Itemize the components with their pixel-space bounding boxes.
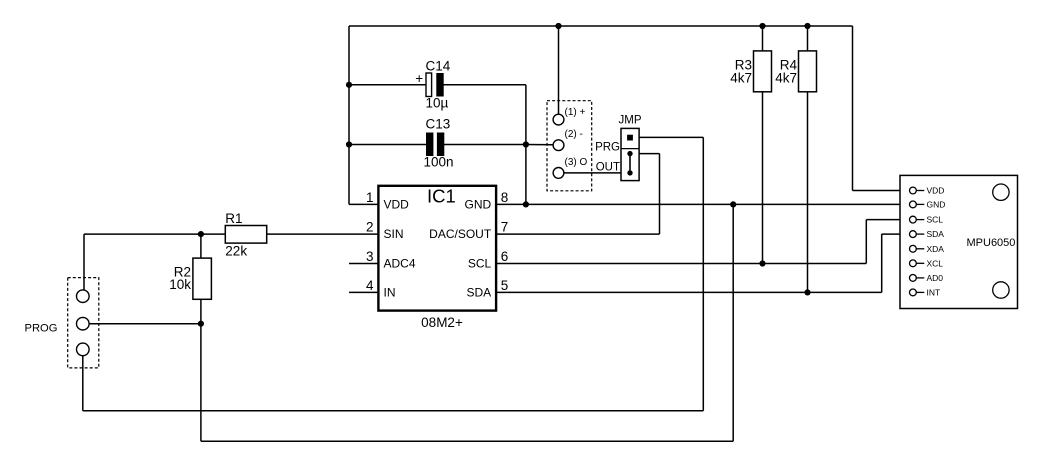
svg-text:8: 8	[501, 190, 509, 205]
capacitor C13 right plate	[437, 133, 444, 157]
svg-text:XCL: XCL	[927, 258, 944, 268]
svg-text:6: 6	[501, 249, 509, 264]
wire SDA vertical	[881, 234, 883, 292]
module pin circle SDA	[910, 231, 917, 238]
capacitor C14 right plate	[436, 73, 443, 97]
junction top rail to connector pin1	[555, 23, 561, 29]
wire bottom PRG rail	[83, 410, 704, 412]
module pin stub XCL	[916, 262, 924, 264]
wire GND drop to bottom rail	[732, 204, 734, 441]
module pin circle GND	[910, 201, 917, 208]
wire SIN left segment	[84, 233, 225, 235]
connector X1 pin 1	[553, 114, 564, 125]
module pin stub GND	[916, 203, 924, 205]
wire pin1 stub	[349, 203, 378, 205]
svg-text:(1) +: (1) +	[565, 107, 586, 118]
svg-text:AD0: AD0	[927, 273, 944, 283]
svg-text:JMP: JMP	[619, 115, 642, 127]
jumper JMP divider	[621, 148, 639, 150]
svg-text:C13: C13	[426, 117, 451, 132]
junction caps at GND row	[523, 201, 529, 207]
svg-text:(3) O: (3) O	[565, 157, 588, 168]
svg-text:OUT: OUT	[596, 161, 620, 173]
module mounting hole top	[993, 184, 1009, 200]
wire SCL vertical	[865, 220, 867, 264]
wire PROG pin2 to R2 node	[89, 323, 201, 325]
module pin circle AD0	[910, 275, 917, 282]
wire PROG pin3 down	[82, 356, 84, 411]
svg-text:ADC4: ADC4	[384, 256, 416, 270]
resistor R1	[225, 226, 266, 244]
svg-text:1: 1	[366, 190, 374, 205]
svg-text:INT: INT	[927, 287, 941, 297]
svg-text:5: 5	[501, 278, 509, 293]
module pin stub XDA	[916, 248, 924, 250]
junction top rail at R3	[759, 23, 765, 29]
resistor R3	[754, 51, 772, 92]
module pin stub VDD	[916, 190, 924, 192]
jumper JMP body	[621, 128, 639, 180]
svg-text:4k7: 4k7	[775, 71, 797, 86]
module pin circle INT	[910, 289, 917, 296]
connector PROG pin 2	[77, 317, 90, 330]
wire VDD to MPU	[853, 190, 910, 192]
svg-text:SDA: SDA	[467, 285, 492, 299]
wire SCL to MPU	[866, 219, 909, 221]
svg-text:XDA: XDA	[927, 244, 945, 254]
jumper JMP shunt top dot	[627, 151, 632, 156]
junction left rail at C13	[346, 141, 352, 147]
wire bottom GND rail	[201, 440, 733, 442]
wire SDA to MPU	[882, 233, 910, 235]
wire R2 top	[200, 234, 202, 258]
module pin circle XCL	[910, 260, 917, 267]
svg-text:2: 2	[366, 220, 374, 235]
wire R4 bottom	[807, 92, 809, 293]
wire top VDD rail	[349, 25, 853, 27]
wire PRG to right	[639, 136, 703, 138]
wire C14 right	[443, 84, 526, 86]
module mounting hole bottom	[993, 282, 1009, 298]
svg-text:VDD: VDD	[927, 186, 945, 196]
svg-text:GND: GND	[465, 197, 492, 211]
module pin circle SCL	[910, 216, 917, 223]
svg-text:DAC/SOUT: DAC/SOUT	[429, 227, 492, 241]
svg-text:IN: IN	[384, 285, 396, 299]
wire connector pin2 from caps	[526, 144, 554, 146]
connector X1 pin 2	[553, 140, 564, 151]
resistor R4	[799, 51, 817, 92]
svg-text:7: 7	[501, 220, 509, 235]
module pin stub INT	[916, 291, 924, 293]
wire OUT vertical	[659, 154, 661, 235]
wire VDD drop right	[852, 26, 854, 191]
wire R3 bottom	[762, 92, 764, 264]
jumper JMP pin square	[627, 135, 633, 141]
wire SCL row	[496, 263, 866, 265]
svg-text:4k7: 4k7	[730, 71, 752, 86]
wire pin3 stub	[349, 263, 378, 265]
wire PRG vertical	[702, 137, 704, 410]
connector PROG pin 1	[77, 290, 90, 303]
svg-text:4: 4	[366, 278, 374, 293]
module pin circle VDD	[910, 187, 917, 194]
capacitor C14 left plate	[426, 73, 432, 97]
junction GND at bottom rail drop	[730, 201, 736, 207]
jumper JMP shunt bar	[629, 154, 631, 173]
junction top rail at R4	[804, 23, 810, 29]
svg-text:+: +	[415, 71, 423, 86]
wire R1 to pin2	[267, 233, 379, 235]
wire connector pin3 to JMP	[564, 172, 622, 174]
module pin stub SCL	[916, 219, 924, 221]
connector X1 pin 3	[553, 168, 564, 179]
svg-text:3: 3	[366, 249, 374, 264]
module pin circle XDA	[910, 245, 917, 252]
wire PROG top vertical	[83, 234, 85, 290]
op-amp U1 IC1 body	[378, 186, 496, 311]
svg-text:(2) -: (2) -	[565, 129, 583, 140]
svg-text:SCL: SCL	[927, 215, 944, 225]
wire pin7 DAC/SOUT	[496, 233, 659, 235]
wire SDA row	[496, 291, 882, 293]
svg-text:C14: C14	[426, 59, 451, 74]
wire GND row pin8 to MPU	[496, 203, 909, 205]
junction SCL at R3	[759, 260, 765, 266]
svg-text:10k: 10k	[169, 277, 191, 292]
wire OUT to right	[639, 153, 659, 155]
junction SDA at R4	[804, 289, 810, 295]
wire C13 left	[349, 144, 427, 146]
module MPU6050 body	[900, 175, 1018, 308]
svg-text:MPU6050: MPU6050	[967, 237, 1016, 249]
svg-text:PRG: PRG	[595, 142, 620, 154]
svg-text:10µ: 10µ	[426, 96, 449, 111]
wire left VDD rail vertical	[348, 26, 350, 204]
svg-text:08M2+: 08M2+	[421, 315, 463, 330]
wire R4 top	[807, 26, 809, 51]
capacitor C13 left plate	[426, 133, 433, 157]
jumper JMP shunt bottom dot	[627, 170, 632, 175]
wire pin4 stub	[349, 291, 378, 293]
svg-text:R1: R1	[225, 211, 242, 226]
wire R2 bottom vertical	[200, 299, 202, 441]
svg-text:GND: GND	[927, 199, 946, 209]
resistor R2	[193, 258, 212, 299]
junction left rail at C14	[346, 82, 352, 88]
junction R1 R2 node	[198, 231, 204, 237]
svg-text:SIN: SIN	[384, 227, 404, 241]
module pin stub AD0	[916, 277, 924, 279]
svg-text:VDD: VDD	[384, 197, 410, 211]
svg-text:IC1: IC1	[427, 186, 456, 207]
connector X1 dashed box	[547, 101, 592, 191]
svg-text:100n: 100n	[424, 155, 454, 170]
wire C13 right	[444, 144, 526, 146]
wire connector pin1 drop	[558, 26, 560, 115]
svg-text:PROG: PROG	[25, 323, 58, 335]
module pin stub SDA	[916, 233, 924, 235]
wire R3 top	[762, 26, 764, 51]
junction caps at C13 row	[523, 141, 529, 147]
connector PROG dashed box	[68, 278, 99, 368]
svg-text:22k: 22k	[225, 243, 247, 258]
svg-text:SCL: SCL	[468, 256, 492, 270]
connector PROG pin 3	[77, 343, 90, 356]
wire capacitor right vertical	[525, 85, 527, 205]
svg-text:SDA: SDA	[927, 229, 945, 239]
junction R2 PROG node	[198, 321, 204, 327]
wire C14 left	[349, 84, 427, 86]
